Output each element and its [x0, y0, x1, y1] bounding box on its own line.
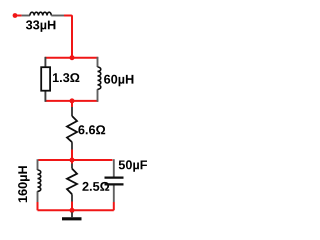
inductor L1 33µH — [22, 12, 64, 15]
wire — [15, 15, 22, 17]
resistor R1 1.3Ω — [41, 57, 50, 102]
wire — [64, 16, 72, 58]
wire top rail of bottom section — [38, 159, 112, 161]
wire bottom rail of bottom section — [38, 209, 114, 211]
node D junction — [70, 208, 75, 213]
inductor L3 160µH — [38, 159, 41, 210]
node B junction — [70, 98, 75, 103]
label 33µH — [26, 20, 56, 32]
inductor L2 60µH — [98, 57, 101, 102]
ground — [62, 210, 82, 219]
label 160µH — [18, 166, 30, 202]
node A junction — [70, 55, 75, 60]
node C junction — [70, 158, 75, 163]
resistor R3 2.5Ω — [67, 160, 77, 210]
wire — [71, 101, 73, 107]
wire bottom rail of parallel section — [45, 100, 98, 102]
label 50µF — [119, 160, 147, 172]
wire — [71, 150, 73, 161]
node IN terminal — [13, 13, 18, 18]
label 1.3Ω — [53, 73, 79, 82]
wire top rail of parallel section — [45, 57, 98, 59]
resistor R2 6.6Ω — [67, 107, 77, 150]
label 6.6Ω — [78, 125, 105, 134]
label 60µH — [104, 75, 133, 87]
capacitor C1 50µF — [105, 159, 124, 210]
label 2.5Ω — [82, 182, 109, 191]
